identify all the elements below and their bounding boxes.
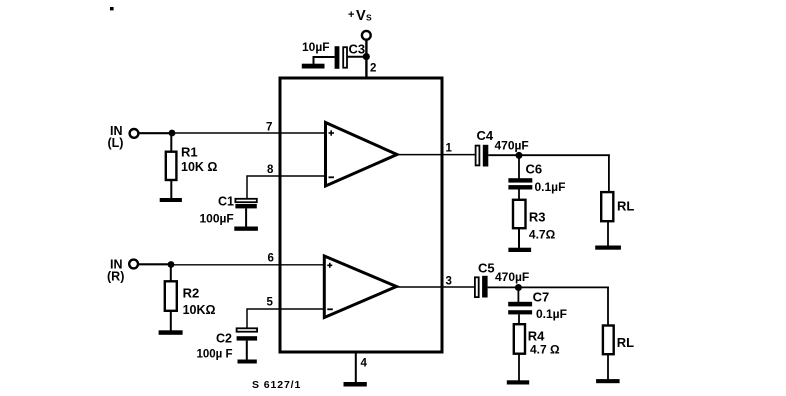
- svg-text:RL: RL: [617, 199, 634, 214]
- junction node output R: [515, 284, 522, 291]
- A1 plus input mark: [329, 130, 335, 135]
- wire RL to ground (L): [607, 221, 609, 246]
- wire junction to R1: [170, 133, 172, 153]
- IN (R) terminal: [129, 260, 138, 269]
- load resistor RL (R): [603, 326, 614, 355]
- A2 minus input mark: [327, 308, 333, 310]
- pin 4 stub: [355, 354, 357, 383]
- wire pin 6: [171, 264, 325, 266]
- ground (RL L): [595, 246, 621, 250]
- ground (C1): [234, 227, 258, 231]
- svg-text:R2: R2: [183, 286, 200, 301]
- svg-text:470µF: 470µF: [495, 139, 529, 153]
- svg-text:C1: C1: [218, 195, 234, 209]
- svg-text:4.7 Ω: 4.7 Ω: [530, 343, 560, 357]
- wire C2 to ground: [246, 341, 248, 360]
- svg-text:10µF: 10µF: [302, 40, 330, 54]
- resistor R4: [514, 324, 525, 354]
- wire corner down to RL (L): [608, 154, 610, 192]
- svg-text:(L): (L): [108, 136, 124, 150]
- load resistor RL (L): [601, 192, 613, 221]
- svg-text:S 6127/1: S 6127/1: [252, 379, 301, 391]
- svg-text:C6: C6: [526, 162, 543, 177]
- svg-text:4: 4: [361, 358, 368, 370]
- capacitor C5: [475, 276, 488, 298]
- svg-text:4.7Ω: 4.7Ω: [529, 228, 556, 242]
- junction node output L: [516, 152, 523, 159]
- wire C5 to RL corner (R): [488, 286, 609, 288]
- svg-text:(R): (R): [107, 270, 124, 284]
- capacitor C7: [508, 302, 532, 315]
- wire +Vs terminal to pin 2: [365, 40, 367, 78]
- op-amp A1: [326, 123, 398, 187]
- wire junction to C6: [518, 155, 520, 178]
- svg-text:C3: C3: [349, 42, 366, 57]
- svg-text:C4: C4: [477, 128, 494, 143]
- wire R3 to ground: [518, 228, 520, 248]
- svg-text:RL: RL: [617, 335, 634, 350]
- wire pin 5 to C2: [247, 309, 325, 328]
- wire pin 7: [172, 132, 326, 134]
- wire corner down to RL (R): [607, 287, 609, 326]
- op-amp A2: [324, 256, 396, 318]
- junction supply node: [363, 53, 370, 60]
- registration dot: [110, 7, 114, 10]
- wire pin 1 output: [397, 154, 476, 156]
- resistor R1: [166, 152, 177, 180]
- svg-text:R3: R3: [529, 210, 546, 225]
- wire IN(R) to junction: [138, 263, 171, 265]
- svg-text:0.1µF: 0.1µF: [536, 307, 567, 321]
- wire pin 8 to C1: [247, 176, 326, 199]
- svg-text:C5: C5: [478, 261, 495, 276]
- junction node L input: [169, 130, 176, 137]
- capacitor C4: [476, 145, 489, 167]
- svg-text:S: S: [366, 13, 372, 23]
- wire R1 to ground: [170, 180, 172, 199]
- svg-text:2: 2: [370, 63, 376, 75]
- ground (R2): [159, 330, 183, 335]
- svg-text:0.1µF: 0.1µF: [535, 180, 566, 194]
- svg-text:1: 1: [446, 143, 453, 155]
- resistor R3: [513, 200, 526, 228]
- svg-text:+: +: [348, 9, 354, 21]
- capacitor C6: [508, 178, 532, 189]
- svg-text:V: V: [356, 8, 366, 24]
- wire IN(L) to junction: [139, 132, 172, 134]
- svg-text:8: 8: [267, 164, 274, 176]
- ground (R1): [160, 198, 182, 202]
- ground (R4): [507, 380, 529, 384]
- wire C7 to R4: [518, 314, 520, 325]
- A1 minus input mark: [329, 176, 335, 178]
- A2 plus input mark: [327, 263, 332, 268]
- node +Vs label: [348, 8, 372, 24]
- wire junction to C3: [347, 56, 367, 58]
- ground (C2): [238, 360, 257, 364]
- ground (RL R): [596, 379, 620, 383]
- svg-text:5: 5: [267, 297, 274, 309]
- IC box U1: [280, 78, 442, 352]
- wire C3 to ground: [314, 57, 335, 65]
- wire C1 to ground: [245, 208, 247, 227]
- capacitor C2: [237, 328, 258, 340]
- svg-text:100µF: 100µF: [200, 212, 234, 226]
- wire pin 3 output: [397, 286, 475, 288]
- svg-text:10KΩ: 10KΩ: [183, 303, 216, 317]
- resistor R2: [165, 281, 177, 311]
- ground (pin 4): [344, 382, 367, 387]
- wire junction to R2: [170, 265, 172, 283]
- svg-text:6: 6: [268, 253, 274, 265]
- capacitor C3: [335, 46, 347, 69]
- ground (C3): [302, 64, 325, 69]
- svg-text:C2: C2: [216, 332, 232, 346]
- capacitor C1: [235, 199, 256, 209]
- +Vs terminal: [362, 31, 371, 40]
- junction node R input: [168, 261, 175, 268]
- svg-text:C7: C7: [533, 290, 550, 305]
- svg-text:100µ F: 100µ F: [197, 349, 233, 361]
- wire C4 to RL corner: [488, 154, 610, 156]
- wire RL to ground (R): [607, 354, 609, 379]
- svg-text:R1: R1: [181, 145, 198, 160]
- wire junction to C7: [517, 288, 519, 303]
- wire R2 to ground: [170, 311, 172, 331]
- ground (R3): [508, 248, 531, 252]
- svg-text:7: 7: [266, 122, 272, 134]
- svg-text:3: 3: [446, 276, 452, 288]
- svg-text:470µF: 470µF: [495, 270, 529, 284]
- svg-text:R4: R4: [528, 329, 545, 344]
- IN (L) terminal: [130, 129, 139, 138]
- wire C6 to R3: [518, 190, 520, 201]
- svg-text:10K Ω: 10K Ω: [181, 160, 217, 174]
- wire R4 to ground: [518, 354, 520, 381]
